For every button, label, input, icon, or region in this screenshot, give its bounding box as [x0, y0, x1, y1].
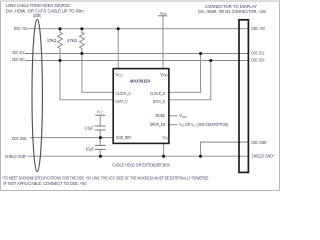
svg-text:DDC SDA: DDC SDA [12, 57, 25, 62]
svg-text:10µF: 10µF [86, 146, 95, 151]
svg-text:CLOCK_C: CLOCK_C [116, 91, 131, 96]
svg-text:47kΩ: 47kΩ [67, 38, 78, 43]
svg-text:VCC: VCC [97, 110, 104, 115]
svg-text:DRVR_EN: DRVR_EN [150, 122, 165, 127]
svg-text:MODE: MODE [156, 113, 166, 118]
svg-text:VCC: VCC [115, 72, 123, 78]
svg-text:CLOCK_D: CLOCK_D [150, 91, 165, 96]
svg-text:DVI, HDMI, OR M1 CONNECTOR, <3: DVI, HDMI, OR M1 CONNECTOR, <3m [198, 9, 266, 14]
svg-text:VDD OR VCC (SEE DESCRIPTION): VDD OR VCC (SEE DESCRIPTION) [179, 123, 228, 128]
svg-text:(200ft): (200ft) [33, 13, 42, 18]
svg-text:VDD: VDD [160, 11, 167, 16]
svg-text:DDC SDA: DDC SDA [252, 57, 265, 62]
svg-text:DATA_D: DATA_D [153, 99, 165, 104]
svg-text:1.0µF: 1.0µF [85, 125, 94, 130]
svg-text:VSS: VSS [162, 135, 169, 141]
svg-text:DDC +5V: DDC +5V [252, 26, 266, 31]
svg-text:VDD: VDD [179, 113, 187, 119]
svg-text:DDC GND: DDC GND [12, 136, 27, 141]
svg-text:DDC SCL: DDC SCL [12, 50, 24, 55]
svg-text:DATA_C: DATA_C [116, 99, 128, 104]
svg-text:DDC +5V: DDC +5V [14, 26, 27, 31]
svg-text:GND_REF: GND_REF [116, 135, 132, 140]
svg-text:DDC GND: DDC GND [252, 140, 268, 145]
svg-text:47kΩ: 47kΩ [47, 38, 58, 43]
svg-text:CABLE HEAD OR EXTENDER BOX: CABLE HEAD OR EXTENDER BOX [112, 163, 170, 168]
svg-text:VDD: VDD [160, 72, 168, 78]
svg-text:DDC SCL: DDC SCL [252, 50, 265, 55]
svg-text:IF NOT APPLICABLE, CONNECT TO: IF NOT APPLICABLE, CONNECT TO DDC +5V. [3, 181, 87, 186]
svg-text:*TO MEET DVI/HDMI SPECIFICATIO: *TO MEET DVI/HDMI SPECIFICATIONS FOR THE… [2, 176, 209, 181]
svg-text:MAX3815A: MAX3815A [130, 79, 151, 84]
svg-text:SHIELD GND*: SHIELD GND* [5, 154, 27, 159]
svg-text:LONG CABLE FROM VIDEO SOURCE:: LONG CABLE FROM VIDEO SOURCE: [6, 3, 71, 8]
svg-text:DVI, HDMI, OR CAT-5 CABLE UP T: DVI, HDMI, OR CAT-5 CABLE UP TO 60m [6, 8, 84, 13]
svg-text:SHIELD GND*: SHIELD GND* [252, 154, 275, 159]
